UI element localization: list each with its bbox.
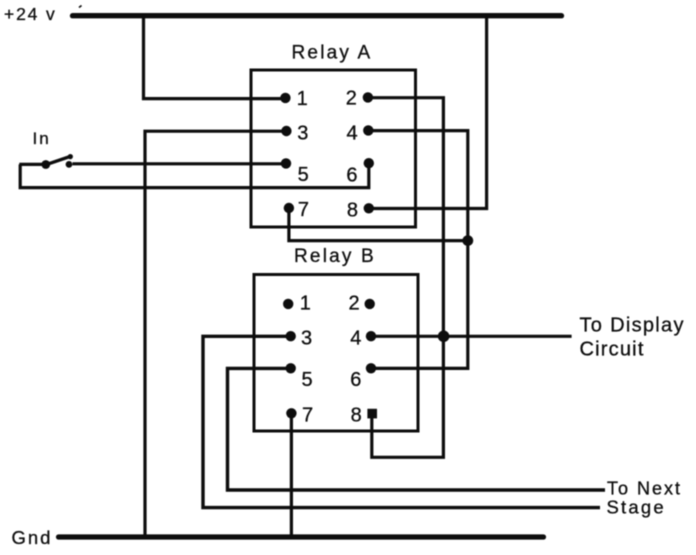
wire switch to pin 5 Relay A (73, 162, 287, 165)
wire pin 4 Relay A down to pin 6 Relay B (368, 131, 468, 369)
pin 3 dot B (286, 331, 296, 341)
svg-text:2: 2 (346, 87, 357, 109)
svg-text:In: In (33, 129, 51, 148)
switch left contact pad (41, 160, 50, 169)
wire pin 7 Relay B to Gnd (290, 414, 293, 537)
wire pin 3 Relay B to stage line (203, 336, 600, 507)
pin 4 dot (363, 125, 373, 135)
pin 6 dot (364, 158, 374, 168)
switch right contact (66, 161, 73, 168)
pin 8 dot B (367, 409, 377, 419)
ink speck near bus start (79, 6, 82, 8)
+24V bus (73, 13, 562, 18)
svg-text:3: 3 (301, 328, 312, 350)
Relay A box (251, 70, 416, 227)
svg-text:Circuit: Circuit (580, 339, 645, 361)
svg-text:+24 v: +24 v (4, 4, 57, 24)
wire pin 8 Relay A to +24V bus (369, 16, 487, 209)
svg-text:Stage: Stage (607, 497, 666, 518)
Gnd bus (59, 534, 544, 539)
svg-text:1: 1 (297, 88, 308, 110)
pin 5 dot B (286, 363, 296, 373)
svg-text:6: 6 (346, 165, 357, 187)
svg-text:1: 1 (300, 293, 311, 315)
pin 1 dot (280, 93, 290, 103)
pin 3 dot (281, 126, 291, 136)
pin 5 dot (281, 158, 291, 168)
junction dot display line (438, 331, 450, 343)
pin 7 dot B (286, 408, 296, 418)
svg-text:6: 6 (350, 369, 361, 391)
switch blade tip blob (68, 154, 73, 159)
wire pin 5 Relay B to next line (228, 368, 606, 490)
svg-text:2: 2 (348, 293, 359, 315)
Relay B pin numbers (300, 293, 362, 427)
switch blade (45, 156, 72, 165)
svg-text:Relay B: Relay B (294, 246, 376, 267)
wire pin 2 Relay A to junction to pin 8 Relay B (368, 98, 443, 458)
pin 6 dot B (366, 363, 376, 373)
svg-text:5: 5 (298, 164, 309, 186)
svg-text:5: 5 (302, 369, 313, 391)
wire switch left terminal loop to pin 6 Relay A (19, 163, 369, 187)
pin 4 dot B (366, 331, 376, 341)
svg-text:3: 3 (297, 122, 308, 144)
Relay B box (254, 275, 418, 432)
wire pin 4 Relay B to display circuit (371, 335, 572, 338)
wire pin 3 Relay A to Gnd (145, 131, 286, 537)
svg-text:Gnd: Gnd (12, 527, 53, 548)
pin 2 dot B (365, 299, 375, 309)
pin 8 dot (364, 203, 374, 213)
svg-text:8: 8 (351, 404, 362, 426)
pin 1 dot B (283, 299, 293, 309)
svg-text:To Display: To Display (580, 314, 685, 336)
Relay A pin numbers (297, 87, 358, 221)
svg-text:4: 4 (350, 328, 361, 350)
svg-text:4: 4 (346, 123, 357, 145)
svg-text:7: 7 (302, 404, 313, 426)
wire bus to pin 1 Relay A (144, 16, 286, 99)
pin 7 dot (284, 203, 294, 213)
svg-text:Relay A: Relay A (292, 43, 373, 64)
wire pin 7 Relay A to junction on vertical (289, 209, 468, 241)
pin 2 dot (363, 92, 373, 102)
junction dot pin7A line (462, 235, 473, 246)
svg-text:To Next: To Next (607, 479, 682, 499)
svg-text:7: 7 (298, 199, 309, 221)
svg-text:8: 8 (347, 199, 358, 221)
